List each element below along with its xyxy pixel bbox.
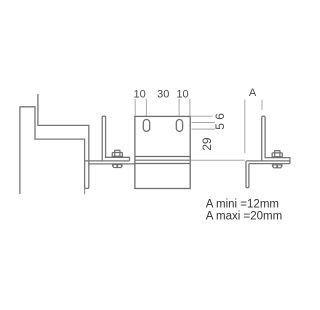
nut right lower (hex nut below panel): [272, 164, 283, 168]
bolt end left: [115, 150, 120, 156]
dimension A extension right: [261, 100, 263, 110]
right panel edge (hanging edge): [246, 161, 249, 188]
leader line top edge (for 5/6): [191, 115, 213, 117]
leader line 29 bottom: [191, 159, 245, 161]
left panel section (side view, stepped profile): [20, 94, 89, 194]
svg-text:A: A: [249, 87, 257, 99]
leader line slot bottom: [192, 128, 215, 130]
nut right (upper hex nut): [272, 153, 282, 157]
svg-text:10: 10: [133, 88, 145, 100]
left panel edge stub below: [84, 188, 86, 194]
left panel bottom face line: [89, 163, 135, 165]
nut left (upper hex nut): [112, 153, 122, 157]
plate (front view mounting plate): [135, 116, 190, 188]
svg-text:A mini =12mm: A mini =12mm: [206, 198, 279, 210]
dimension ticks top (10 30 10): [135, 99, 190, 116]
washer left: [112, 156, 124, 157]
plate slot line 1: [135, 156, 190, 158]
leader line slot top: [192, 122, 215, 124]
plate slot line 2: [135, 159, 190, 161]
plate slot line 3: [135, 163, 190, 165]
bolt end right: [275, 151, 280, 157]
dimension A extension left: [244, 100, 246, 154]
svg-text:A maxi =20mm: A maxi =20mm: [206, 211, 282, 223]
svg-text:30: 30: [157, 88, 169, 100]
nut left lower (hex nut below panel): [112, 164, 123, 168]
slot right (oblong hole): [176, 120, 182, 132]
right panel bottom face line: [249, 163, 290, 165]
right panel top face line: [246, 160, 290, 162]
washer right: [271, 157, 283, 158]
slot left (oblong hole): [143, 120, 149, 132]
left panel top face line: [85, 160, 130, 162]
svg-text:29: 29: [200, 137, 214, 151]
bracket left (side view L-bracket): [102, 116, 129, 161]
svg-text:10: 10: [176, 88, 188, 100]
svg-text:5 6: 5 6: [213, 113, 227, 130]
bracket right (side view L-bracket): [262, 116, 290, 163]
